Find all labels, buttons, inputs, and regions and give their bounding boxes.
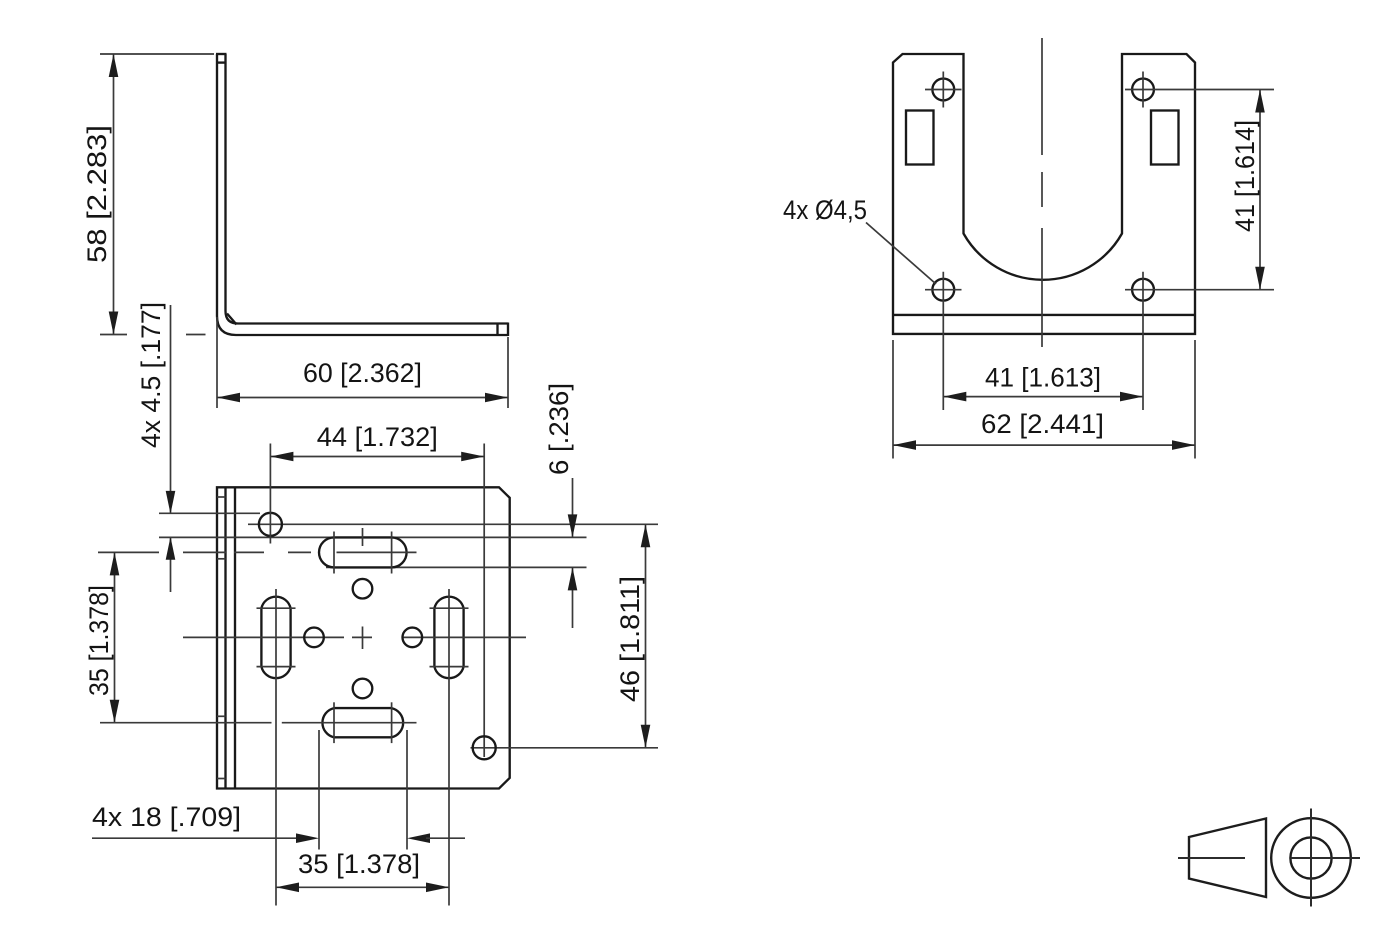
dim line right part (426, 837, 465, 839)
outline (893, 54, 1195, 334)
floor end cap (507, 323, 509, 337)
arrow up (1255, 90, 1265, 113)
vertical center line (362, 528, 364, 649)
arrow down (641, 725, 651, 748)
dim line upper (572, 478, 574, 537)
segment a (183, 636, 344, 638)
ext line top (100, 53, 214, 55)
plate outline (217, 487, 510, 788)
edge tick d (217, 778, 226, 780)
floor end tick (496, 324, 498, 336)
arrow right (426, 883, 449, 893)
slot bottom arc (261, 667, 290, 679)
arrow up (109, 54, 119, 77)
svg-text:41 [1.613]: 41 [1.613] (985, 363, 1101, 393)
edge tick b (217, 558, 226, 560)
arrow left (943, 392, 966, 402)
ext line bottom segment b (186, 334, 206, 336)
wall top cap (216, 53, 227, 55)
rect hole right (1151, 111, 1179, 165)
slot top arc (261, 597, 290, 609)
ext line right to lower hole (483, 444, 485, 758)
ext line right (507, 337, 509, 408)
small hole bottom (353, 679, 373, 699)
svg-text:41 [1.614]: 41 [1.614] (1230, 120, 1260, 232)
arrow up (641, 524, 651, 547)
segment b (362, 627, 364, 650)
slot right arc (392, 537, 407, 567)
arrow left (407, 833, 430, 843)
ext line left (318, 730, 320, 850)
slot mid line b (282, 722, 417, 724)
slot mid line (337, 551, 417, 553)
svg-text:46 [1.811]: 46 [1.811] (615, 576, 645, 702)
segment c (402, 636, 526, 638)
row line y524 hole center (248, 523, 658, 525)
bend line (893, 314, 1195, 316)
ext line bottom segment a (100, 334, 127, 336)
center line vertical (1041, 38, 1043, 347)
tick v (1142, 72, 1144, 108)
tangent line bottom (430, 666, 469, 668)
tick v + ext (1142, 272, 1144, 410)
tangent line right (391, 702, 393, 743)
wall outer edge (217, 54, 508, 335)
tick h + ext (1125, 289, 1274, 291)
arrow right (461, 452, 484, 462)
dim line (893, 444, 1195, 446)
slot mid line a (100, 722, 272, 724)
dash b (234, 551, 264, 553)
slot top arc (434, 597, 463, 609)
row line y537 slot top edge extended (159, 536, 587, 538)
tick v + ext (942, 272, 944, 410)
svg-text:58 [2.283]: 58 [2.283] (82, 125, 112, 263)
label 4x Ø4,5 (783, 195, 936, 284)
hole bottom-left (925, 272, 962, 410)
bottom-right hole row (471, 747, 659, 749)
dim line (645, 524, 647, 748)
ext line left (216, 317, 218, 408)
slot bottom edge (334, 736, 392, 738)
right slot (430, 589, 469, 906)
arrow down (1255, 267, 1265, 290)
arrow right (1120, 392, 1143, 402)
small hole left (304, 628, 324, 648)
slot left arc (319, 537, 334, 567)
svg-text:4x 4.5 [.177]: 4x 4.5 [.177] (136, 302, 166, 448)
left slot (257, 589, 296, 906)
arrow left (217, 393, 240, 403)
outer circle (1271, 818, 1351, 898)
arrow up (166, 537, 176, 560)
slot center line vertical (275, 589, 277, 906)
dim line (114, 552, 116, 722)
bottom-right hole (473, 736, 496, 759)
tangent line left (333, 702, 335, 743)
edge tick c (217, 715, 226, 717)
svg-text:6 [.236]: 6 [.236] (544, 383, 574, 475)
slot bottom arc (434, 667, 463, 679)
svg-text:4x 18 [.709]: 4x 18 [.709] (92, 802, 241, 832)
tick v (942, 72, 944, 108)
arrow left (893, 440, 916, 450)
ext line left (892, 340, 894, 459)
arrow right (1172, 440, 1195, 450)
tangent line left (333, 532, 335, 574)
leader line (866, 223, 936, 285)
dim line (270, 456, 484, 458)
svg-text:60 [2.362]: 60 [2.362] (303, 358, 422, 388)
hole bottom-right (1125, 272, 1274, 410)
cone center line (1178, 857, 1245, 859)
arrow right (485, 393, 508, 403)
slot right arc (392, 708, 404, 737)
segment b (352, 636, 372, 638)
dim line (276, 886, 449, 888)
arrow down (166, 491, 176, 514)
dim line (1259, 90, 1261, 290)
flange projection lines (159, 513, 658, 567)
tangent line right (391, 532, 393, 574)
arrow left (276, 883, 299, 893)
tangent line top (257, 607, 296, 609)
rect hole left (906, 111, 934, 165)
crosshair horizontal (1291, 857, 1361, 859)
slot bottom edge (334, 566, 392, 568)
horizontal center line middle row (183, 636, 526, 638)
slot center line vertical (448, 589, 450, 906)
bend line 3 (234, 487, 236, 788)
dash c (288, 551, 311, 553)
svg-text:44 [1.732]: 44 [1.732] (317, 422, 438, 452)
slot top edge (334, 707, 392, 709)
row line y567 slot bottom edge extended (326, 566, 587, 568)
top slot (319, 532, 416, 574)
tick h (925, 89, 962, 91)
crosshair vertical (1310, 809, 1312, 907)
bottom slot (100, 702, 417, 743)
ext line right (1194, 340, 1196, 459)
hole top-left (925, 72, 962, 108)
slot left arc (322, 708, 334, 737)
svg-text:35 [1.378]: 35 [1.378] (84, 585, 114, 696)
arrow down (109, 312, 119, 335)
arrow up (568, 567, 578, 590)
arrow right (296, 833, 319, 843)
small hole right (403, 628, 423, 648)
dim line (113, 54, 115, 335)
cone side view (1189, 819, 1266, 898)
segment a (362, 528, 364, 546)
top-left hole (259, 513, 282, 536)
dim line left part (92, 837, 300, 839)
segment a (1041, 38, 1043, 155)
row line y513 (159, 512, 260, 514)
dim line upper (170, 305, 172, 514)
slot right edge (289, 608, 291, 666)
segment b (1041, 172, 1043, 207)
arrow left (270, 452, 293, 462)
ext line right (406, 730, 408, 850)
bend diagonal tick (227, 314, 237, 325)
wall top tick (217, 61, 226, 63)
tangent line top (430, 607, 469, 609)
inner circle (1290, 837, 1331, 878)
slot left edge (260, 608, 262, 666)
dim line lower (572, 567, 574, 628)
svg-text:62 [2.441]: 62 [2.441] (981, 409, 1104, 439)
arrow up (110, 552, 120, 575)
ext line left through hole (269, 444, 271, 544)
tick h (925, 289, 962, 291)
tick h + ext (1125, 89, 1274, 91)
svg-text:4x Ø4,5: 4x Ø4,5 (783, 195, 867, 225)
slot top edge (334, 536, 392, 538)
arrow down (568, 514, 578, 537)
dim line (217, 397, 508, 399)
small hole top (353, 579, 373, 599)
arrow down (110, 700, 120, 723)
dash a (183, 551, 226, 553)
dim line lower (170, 537, 172, 592)
segment c (1041, 228, 1043, 347)
hole top-right (1125, 72, 1274, 108)
tangent line bottom (257, 666, 296, 668)
center line top slot row (98, 551, 311, 553)
slot left edge (433, 608, 435, 666)
edge tick a (217, 496, 226, 498)
dim line (943, 396, 1143, 398)
svg-text:35 [1.378]: 35 [1.378] (298, 849, 420, 879)
slot right edge (462, 608, 464, 666)
wall inner edge (226, 54, 509, 324)
ext segment (98, 551, 159, 553)
bend line 2 (224, 487, 226, 788)
